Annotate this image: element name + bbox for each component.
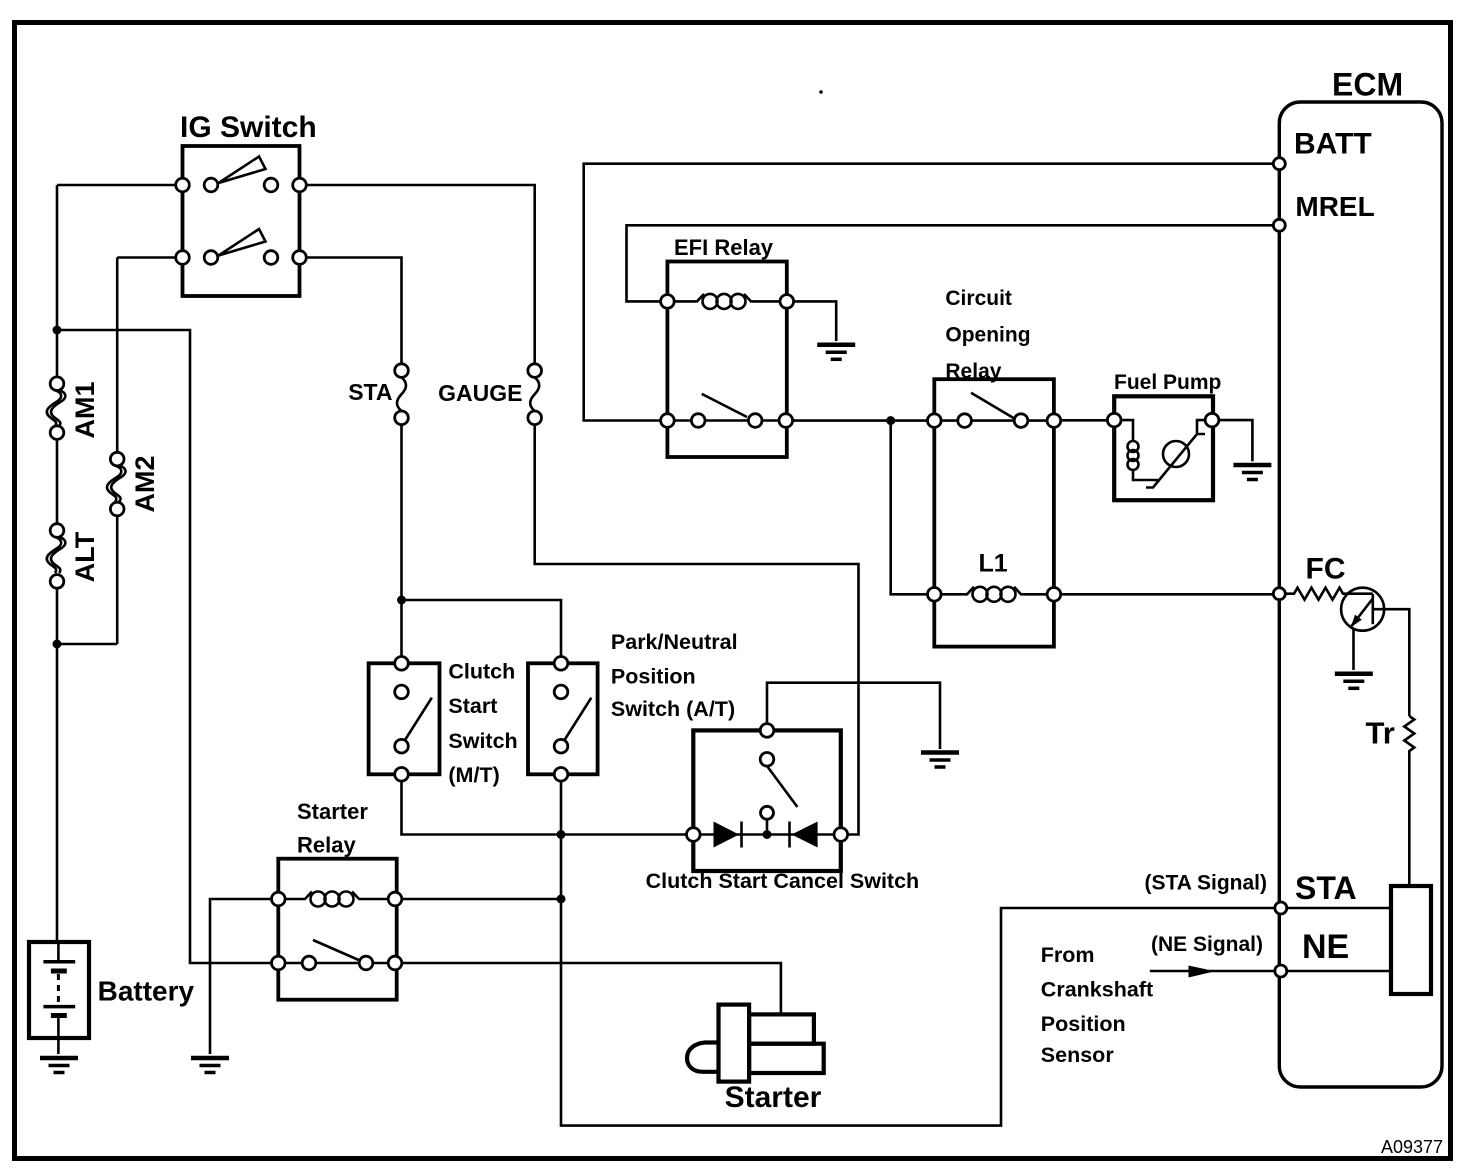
wire: GAUGE fuse to cancel switch right terminal [535, 425, 859, 835]
junction dot STA branch [397, 596, 406, 605]
junction dot L1 branch [886, 416, 895, 425]
svg-text:STA: STA [348, 379, 392, 405]
wire: circuit opening relay to fuel pump [1054, 419, 1114, 422]
fusible link ALT [47, 524, 100, 589]
fuel pump [1107, 371, 1221, 500]
wire: IG row2 left to AM2 column [117, 256, 182, 259]
ground: fuel pump [1233, 465, 1271, 480]
wire: PN switch bottom down [560, 781, 563, 834]
junction dot starter relay coil branch [557, 895, 566, 904]
svg-text:(STA Signal): (STA Signal) [1145, 872, 1268, 895]
starter relay [272, 799, 402, 1000]
wire: branch down to L1 coil [891, 421, 935, 595]
svg-text:BATT: BATT [1294, 128, 1372, 161]
EFI relay [661, 235, 794, 457]
diode D2 [792, 822, 818, 848]
svg-text:Clutch: Clutch [448, 660, 515, 684]
svg-text:Crankshaft: Crankshaft [1041, 978, 1153, 1002]
ground: EFI relay [817, 345, 855, 360]
wire: AM2 column vertical segments [116, 258, 119, 645]
svg-text:(M/T): (M/T) [448, 763, 499, 787]
ECM terminal BATT [1273, 158, 1285, 170]
diode D1 [714, 822, 740, 848]
clutch start switch M/T [369, 657, 518, 788]
wire: clutch switch bottom to junction [402, 781, 562, 834]
svg-text:From: From [1041, 943, 1095, 967]
wire: starter relay coil left to ground [210, 899, 278, 1054]
battery BT1 [29, 942, 195, 1073]
fuse AM1 [47, 377, 100, 440]
svg-text:STA: STA [1295, 870, 1357, 906]
svg-text:Switch (A/T): Switch (A/T) [611, 697, 735, 721]
junction dot ALT/AM1 top [53, 326, 62, 335]
svg-text:Relay: Relay [945, 360, 1001, 383]
wire: MREL line from EFI relay coil to ECM [627, 225, 1280, 301]
clutch start cancel switch [646, 724, 920, 893]
connector block (STA/NE) [1287, 886, 1431, 994]
svg-text:GAUGE: GAUGE [438, 380, 522, 406]
svg-text:Sensor: Sensor [1041, 1043, 1115, 1067]
svg-text:MREL: MREL [1295, 191, 1374, 222]
ground: cancel switch [921, 753, 959, 768]
wire: junction to starter relay switch [57, 330, 278, 963]
ECM terminal MREL [1273, 219, 1285, 231]
wire: NE signal stub with arrow [1150, 970, 1281, 973]
svg-text:Fuel Pump: Fuel Pump [1114, 371, 1221, 394]
svg-text:(NE Signal): (NE Signal) [1151, 933, 1263, 956]
resistor FC zigzag [1285, 588, 1373, 600]
junction dot battery column [53, 640, 62, 649]
fuse GAUGE [438, 364, 541, 425]
svg-text:ALT: ALT [70, 531, 100, 582]
svg-text:EFI Relay: EFI Relay [674, 235, 774, 260]
starter motor [687, 1005, 824, 1114]
svg-text:NE: NE [1302, 928, 1349, 966]
svg-text:L1: L1 [979, 550, 1008, 578]
svg-text:IG Switch: IG Switch [180, 111, 317, 144]
svg-text:A09377: A09377 [1381, 1137, 1443, 1157]
ECM terminal NE [1275, 965, 1287, 977]
ground: starter relay [191, 1058, 229, 1073]
fuse AM2 [107, 452, 160, 515]
resistor Tr [1366, 716, 1415, 887]
svg-text:Start: Start [448, 694, 497, 718]
svg-text:ECM: ECM [1332, 67, 1403, 103]
wire: fuel pump right to ground [1212, 420, 1252, 461]
circuit opening relay [928, 287, 1061, 647]
junction dot under PN switch [557, 830, 566, 839]
wire: STA fuse to clutch/PN switches [400, 425, 403, 657]
ECM terminal FC [1273, 588, 1285, 600]
svg-text:Park/Neutral: Park/Neutral [611, 630, 738, 654]
svg-text:Circuit: Circuit [945, 287, 1012, 310]
svg-text:AM1: AM1 [70, 381, 100, 438]
wire: EFI relay switch to circuit opening relay [786, 419, 935, 422]
arrow: NE signal [1189, 966, 1216, 978]
svg-text:Starter: Starter [297, 799, 368, 824]
wire: BATT line from EFI relay switch to ECM [584, 164, 1280, 421]
svg-text:Battery: Battery [98, 976, 195, 1007]
wire: IG row1 right to GAUGE fuse [300, 185, 535, 364]
svg-text:FC: FC [1306, 552, 1346, 585]
wire: starter relay coil right to junction [395, 898, 561, 901]
wire: cancel switch top to ground [767, 683, 940, 749]
wire: IG row2 right to STA fuse [300, 258, 402, 364]
IG Switch SW1 [176, 111, 317, 296]
wire: branch to park/neutral switch [402, 600, 562, 657]
transistor Q1 (FC driver) [1341, 588, 1409, 716]
wire: vertical to starter relay coil and STA signal [561, 835, 1281, 1126]
fuse STA [348, 364, 408, 425]
wire: EFI relay coil right to ground [787, 301, 836, 341]
svg-text:AM2: AM2 [130, 455, 160, 512]
label crankshaft sensor [1041, 943, 1153, 1067]
junction dot between diodes [763, 830, 772, 839]
svg-text:Opening: Opening [945, 324, 1030, 347]
ECM terminal STA [1275, 902, 1287, 914]
svg-text:Starter: Starter [725, 1081, 822, 1114]
svg-text:Tr: Tr [1366, 716, 1395, 751]
wire: AM2 bottom jog to ALT column [57, 643, 117, 646]
wire: L1 right to FC terminal [1054, 593, 1279, 596]
wire: AM1/ALT column vertical segments [56, 185, 59, 942]
wire: IG row1 left to AM1/ALT column [57, 184, 183, 187]
svg-text:Relay: Relay [297, 833, 356, 858]
ground: FC transistor [1335, 674, 1373, 689]
svg-text:Switch: Switch [448, 729, 517, 753]
park/neutral position switch A/T [528, 630, 738, 781]
svg-text:Position: Position [1041, 1012, 1126, 1036]
wire: junction to cancel switch left terminal [561, 833, 693, 836]
svg-text:Position: Position [611, 665, 696, 689]
svg-text:Clutch Start Cancel Switch: Clutch Start Cancel Switch [646, 869, 920, 893]
wire: starter relay switch to starter [395, 963, 781, 1014]
ECM [1279, 67, 1442, 1088]
